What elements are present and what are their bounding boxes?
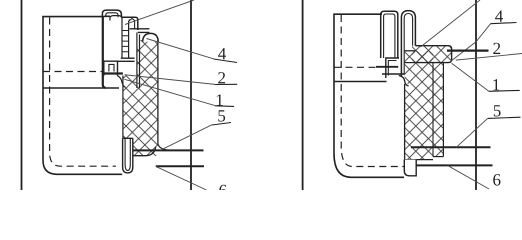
track line 1 — [411, 146, 491, 148]
bar outline — [415, 46, 451, 63]
U-channel inner — [384, 14, 395, 58]
hook cap — [110, 16, 122, 21]
hatch fill: right strip — [433, 63, 443, 157]
bottom tab (white) — [404, 160, 417, 177]
leader to top — [421, 0, 481, 47]
leader 5 — [160, 125, 212, 151]
keeper notch inner — [109, 64, 114, 71]
label 5 — [494, 105, 501, 116]
hook right wall — [129, 20, 132, 59]
column top edge — [405, 50, 416, 52]
profile shelf — [121, 17, 137, 30]
bottom tab outline — [404, 160, 416, 176]
track line 2 — [416, 164, 492, 166]
label 5 — [218, 110, 225, 121]
frame profile outer top — [102, 10, 121, 17]
column bottom — [405, 159, 433, 161]
bar bottom left segment — [405, 62, 416, 64]
hatch right edge — [157, 40, 159, 144]
glide bar (white) — [122, 138, 134, 174]
label 2 — [218, 72, 225, 83]
seal strip left walls — [137, 33, 140, 89]
leader 4 — [450, 24, 491, 63]
hidden horizontal (dashed) — [43, 71, 103, 73]
hatch left lower edge — [122, 76, 124, 139]
profile foot — [118, 76, 126, 88]
label 4 underline — [214, 59, 238, 63]
column divider — [432, 63, 434, 157]
keeper notch inner — [388, 61, 396, 76]
leader 6 — [156, 166, 207, 190]
rail bottom line — [43, 87, 119, 89]
keeper lip line — [104, 72, 123, 74]
bullet gasket outer — [401, 11, 415, 77]
hatch fill: horizontal bar — [412, 46, 452, 63]
profile left outer wall — [103, 17, 106, 88]
label 4 — [218, 48, 226, 59]
keeper lip line — [376, 66, 398, 68]
white mask under bullet gasket — [400, 44, 410, 88]
leaf hidden inner edge (dashed) — [341, 15, 404, 167]
U-channel outer — [381, 11, 398, 58]
strip right edge — [442, 63, 444, 157]
hidden horizontal (dashed) — [334, 66, 379, 68]
hook left wall — [121, 21, 123, 59]
bullet gasket inner — [404, 14, 412, 76]
leader to top — [125, 0, 194, 25]
border vertical left — [21, 0, 23, 190]
label 1 — [493, 79, 499, 90]
glide bar inner — [125, 139, 130, 171]
column left edge — [404, 84, 406, 160]
strip bottom — [433, 156, 443, 158]
rail bottom line — [334, 81, 387, 83]
notch bottom line — [382, 73, 404, 75]
border vertical right — [190, 0, 192, 190]
label 2 — [493, 43, 500, 54]
glide bar outline — [123, 138, 133, 173]
hatch bottom outer curve — [158, 144, 172, 151]
hatch bottom inner curve — [133, 147, 156, 156]
frame profile inner top — [106, 13, 118, 17]
hook bottom shelf — [118, 58, 135, 61]
border vertical right — [475, 0, 477, 190]
profile shelf inner wall — [131, 17, 135, 29]
label 1 underline — [215, 105, 234, 108]
label 5 underline — [212, 123, 231, 126]
hook ribs — [122, 31, 129, 52]
hatch fill seal column — [123, 40, 158, 156]
label 1 underline — [489, 89, 520, 92]
leader 1 — [452, 63, 489, 91]
label 2 underline — [215, 83, 237, 85]
door leaf outline — [43, 16, 123, 174]
leader 6 — [448, 165, 490, 189]
track line 2 — [156, 165, 204, 167]
door leaf outline — [334, 14, 404, 177]
leader 1 — [124, 79, 215, 105]
border vertical left — [302, 0, 304, 190]
keeper notch outer — [104, 61, 118, 76]
label 4 underline — [491, 23, 517, 24]
leader 2 — [124, 75, 215, 85]
track line 1 — [133, 149, 204, 151]
label 6 — [493, 174, 500, 186]
hatch fill: vertical column — [405, 51, 433, 160]
leader 5 — [456, 118, 488, 147]
profile foot — [399, 76, 409, 87]
label 5 underline — [488, 117, 521, 118]
seal bulb — [143, 33, 159, 41]
leaf hidden inner edge (dashed) — [50, 18, 116, 167]
seal lip lines — [130, 29, 150, 33]
keeper notch outer — [386, 58, 399, 78]
label 1 — [217, 94, 223, 105]
label 2 slant underline — [456, 54, 522, 61]
label 4 — [495, 11, 503, 22]
leader 2 (thick) — [447, 49, 489, 51]
label 6 — [219, 185, 226, 197]
leader 4 — [147, 39, 214, 59]
